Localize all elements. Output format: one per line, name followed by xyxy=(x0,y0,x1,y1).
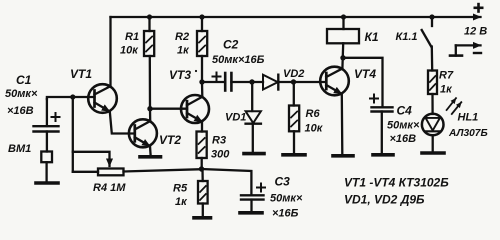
node R3 bottom / R5 / C3 xyxy=(199,166,204,171)
resistor R2 xyxy=(197,17,207,82)
svg-text:1к: 1к xyxy=(177,45,190,57)
label BM1 xyxy=(8,143,31,155)
wire C4 branch xyxy=(343,58,383,106)
label VD2 xyxy=(283,68,304,80)
resistor R7 xyxy=(428,71,437,115)
transistor VT4 xyxy=(320,67,349,96)
svg-text:АЛ307Б: АЛ307Б xyxy=(448,128,488,139)
capacitor C4 xyxy=(370,95,393,154)
svg-text:VТ1: VТ1 xyxy=(70,67,92,81)
transistor VT1 xyxy=(88,84,117,113)
label 12V xyxy=(464,26,487,38)
ground under BM1 xyxy=(36,181,58,185)
label R2 value xyxy=(175,31,190,57)
svg-text:R1: R1 xyxy=(125,31,139,43)
wire VT2 collector up to node xyxy=(149,109,151,121)
label diode types xyxy=(344,193,425,207)
microphone BM1 xyxy=(41,152,52,182)
LED HL1 xyxy=(422,98,461,151)
svg-text:50мк×: 50мк× xyxy=(270,193,303,205)
node - supply terminal xyxy=(450,45,481,55)
svg-text:R5: R5 xyxy=(173,183,188,195)
node R2 top xyxy=(199,14,204,19)
label HL1 xyxy=(448,112,488,140)
label R3 value xyxy=(211,135,230,161)
node R6 tap xyxy=(291,79,296,84)
wire node to C2 xyxy=(202,81,225,83)
svg-text:К1: К1 xyxy=(365,30,379,44)
wire node to C3 xyxy=(202,169,252,195)
label VT1 xyxy=(70,67,92,81)
label C2 value xyxy=(212,38,265,67)
svg-text:10к: 10к xyxy=(305,123,324,135)
wire VT4 emitter to ground xyxy=(341,94,344,154)
label transistor types xyxy=(344,176,449,190)
ground under VT4 xyxy=(333,154,353,158)
svg-text:300: 300 xyxy=(211,149,230,161)
resistor R1 xyxy=(144,17,154,109)
label VT2 xyxy=(159,133,181,147)
svg-text:50мк×16Б: 50мк×16Б xyxy=(212,54,265,66)
wire VT4 collector to K1 xyxy=(341,43,344,68)
wire node to VT3 base xyxy=(150,108,187,110)
svg-text:К1.1: К1.1 xyxy=(396,31,418,43)
svg-text:С1: С1 xyxy=(16,73,32,87)
label R5 value xyxy=(173,183,188,209)
capacitor C3 xyxy=(241,184,265,212)
svg-text:ВМ1: ВМ1 xyxy=(8,143,31,155)
label VT4 xyxy=(354,67,376,81)
label R4 value xyxy=(93,182,126,194)
label R1 value xyxy=(120,31,139,57)
ground under R5 xyxy=(194,216,211,220)
label R6 value xyxy=(305,108,324,135)
node + supply terminal label xyxy=(474,3,484,13)
node K1.1 on rail xyxy=(429,14,434,19)
svg-text:VТ3: VТ3 xyxy=(169,68,191,82)
node VT2 collector / VT3 base xyxy=(147,106,152,111)
wire VT3 collector to node xyxy=(201,82,204,97)
svg-text:10к: 10к xyxy=(120,45,139,57)
resistor R6 xyxy=(289,82,299,153)
ground under HL1 xyxy=(422,151,444,155)
wire +12V top supply rail xyxy=(111,16,481,18)
relay coil K1 xyxy=(327,17,359,43)
label K1 xyxy=(365,30,379,44)
label C1 value xyxy=(5,73,38,117)
svg-text:50мк×: 50мк× xyxy=(5,88,38,100)
svg-text:12 В: 12 В xyxy=(464,26,487,38)
svg-text:R4 1М: R4 1М xyxy=(93,182,126,194)
capacitor C1 xyxy=(34,99,60,152)
node K1 top on rail xyxy=(341,14,346,19)
label K1.1 xyxy=(396,31,418,43)
wire C1 to VT1 base xyxy=(47,97,95,99)
svg-text:С3: С3 xyxy=(275,175,291,189)
node R1 top xyxy=(147,14,152,19)
ground under C4 xyxy=(373,153,393,157)
wire C2 to VD2 xyxy=(231,81,263,83)
svg-text:1к: 1к xyxy=(175,196,188,208)
resistor R5 xyxy=(198,169,208,216)
svg-text:VD1, VD2 Д9Б: VD1, VD2 Д9Б xyxy=(344,193,425,207)
label VD1 xyxy=(225,112,246,124)
label VT3 xyxy=(169,68,197,82)
svg-text:×16В: ×16В xyxy=(7,105,34,117)
wire VT1 emitter to VT2 base xyxy=(110,112,135,134)
label C3 value xyxy=(270,175,303,220)
svg-text:С4: С4 xyxy=(397,104,413,118)
capacitor C2 xyxy=(213,73,232,91)
svg-text:×16В: ×16В xyxy=(390,133,417,145)
diode VD1 xyxy=(246,82,261,152)
node R2 / VT3 collector / C2 xyxy=(199,79,204,84)
node VT1 base junction xyxy=(70,94,75,99)
svg-text:HL1: HL1 xyxy=(458,112,479,124)
wire VD2 to VT4 base xyxy=(278,81,326,83)
svg-text:R3: R3 xyxy=(212,135,226,147)
ground under VT2 xyxy=(140,155,161,159)
ground under VD1 xyxy=(244,152,264,156)
node collector / C4 branch xyxy=(340,55,345,60)
diode VD2 xyxy=(263,75,278,90)
ground under R6 xyxy=(283,153,305,157)
svg-text:50мк×: 50мк× xyxy=(387,120,420,132)
svg-text:R6: R6 xyxy=(306,108,321,120)
svg-text:VТ4: VТ4 xyxy=(354,67,376,81)
transistor VT3 xyxy=(181,95,209,123)
potentiometer R4 xyxy=(73,152,202,176)
label C4 value xyxy=(387,104,420,146)
svg-text:VD2: VD2 xyxy=(283,68,304,80)
label R7 value xyxy=(439,70,454,96)
node VD1 tap xyxy=(249,79,254,84)
wire base junction down to R4 xyxy=(72,97,74,172)
svg-text:R2: R2 xyxy=(175,31,189,43)
ground under C3 xyxy=(240,211,262,215)
wire VT2 emitter to ground xyxy=(149,146,152,155)
svg-text:VТ2: VТ2 xyxy=(159,133,181,147)
svg-text:R7: R7 xyxy=(439,70,454,82)
svg-text:VТ1 -VТ4 КТ3102Б: VТ1 -VТ4 КТ3102Б xyxy=(344,176,449,190)
resistor R3 xyxy=(197,122,207,169)
svg-text:VD1: VD1 xyxy=(225,112,246,124)
svg-text:×16Б: ×16Б xyxy=(272,208,299,220)
switch K1.1 xyxy=(422,17,433,71)
transistor VT2 xyxy=(129,119,157,147)
svg-text:1к: 1к xyxy=(440,84,453,96)
wire VT1 collector to rail xyxy=(109,17,111,86)
svg-text:С2: С2 xyxy=(223,38,239,52)
